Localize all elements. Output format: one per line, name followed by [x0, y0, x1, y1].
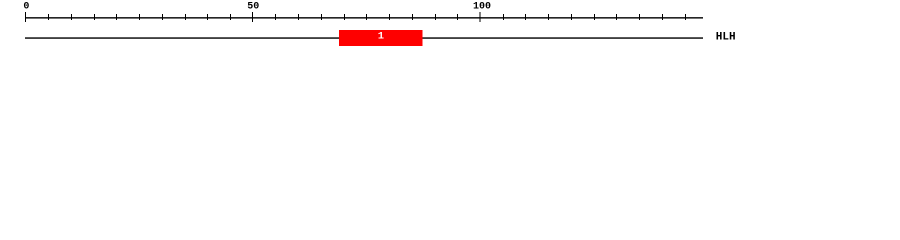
domain box 1 — [339, 30, 422, 46]
svg-text:1: 1 — [378, 31, 384, 43]
major tick 0 — [25, 12, 26, 22]
minor ticks — [48, 14, 686, 20]
background — [0, 0, 900, 58]
svg-text:50: 50 — [247, 1, 259, 12]
major tick 50 — [252, 12, 253, 22]
svg-text:HLH: HLH — [716, 32, 736, 44]
svg-text:0: 0 — [23, 1, 29, 12]
major tick 100 — [480, 12, 481, 22]
svg-text:100: 100 — [473, 1, 491, 12]
sequence line — [25, 37, 703, 38]
ruler baseline — [25, 17, 703, 18]
